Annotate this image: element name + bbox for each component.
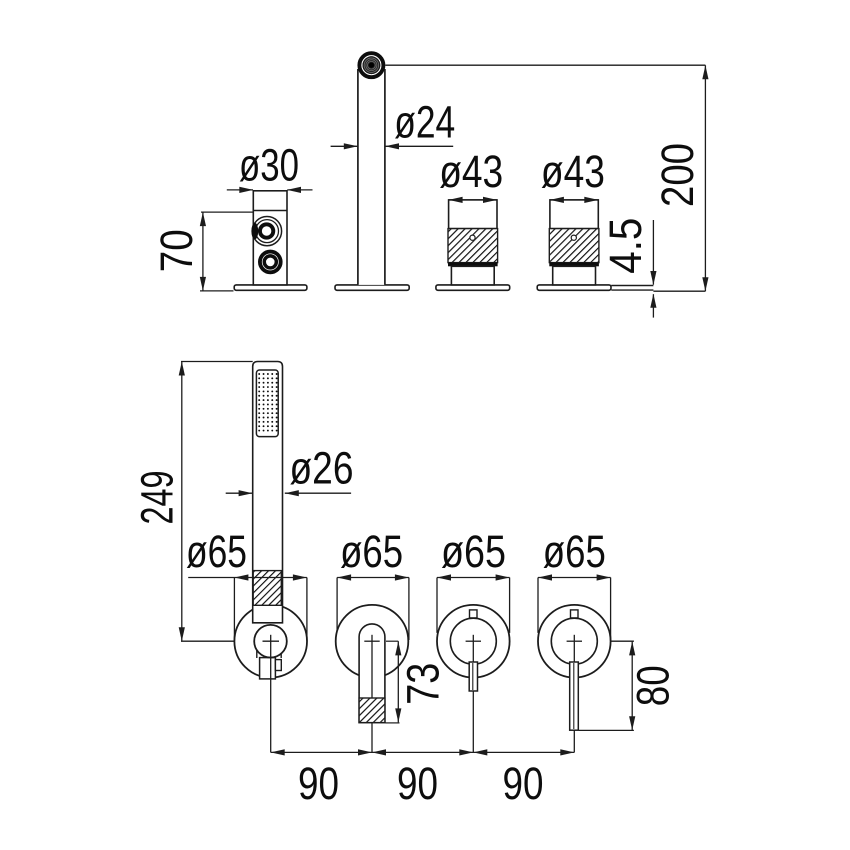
svg-text:73: 73 <box>397 663 448 705</box>
svg-text:80: 80 <box>628 665 679 706</box>
svg-text:90: 90 <box>503 758 544 809</box>
svg-text:ø26: ø26 <box>290 442 354 493</box>
svg-text:4.5: 4.5 <box>600 218 651 274</box>
svg-text:90: 90 <box>397 758 438 809</box>
svg-text:ø24: ø24 <box>394 97 455 148</box>
svg-text:ø65: ø65 <box>543 526 606 577</box>
svg-text:ø65: ø65 <box>186 526 247 577</box>
svg-text:ø65: ø65 <box>441 526 506 577</box>
svg-text:249: 249 <box>132 471 183 525</box>
svg-text:ø43: ø43 <box>541 146 605 197</box>
svg-text:ø65: ø65 <box>340 526 403 577</box>
svg-text:ø30: ø30 <box>239 140 299 191</box>
svg-text:200: 200 <box>652 143 703 207</box>
svg-text:70: 70 <box>151 229 202 272</box>
svg-text:ø43: ø43 <box>439 146 503 197</box>
svg-text:90: 90 <box>298 758 339 809</box>
